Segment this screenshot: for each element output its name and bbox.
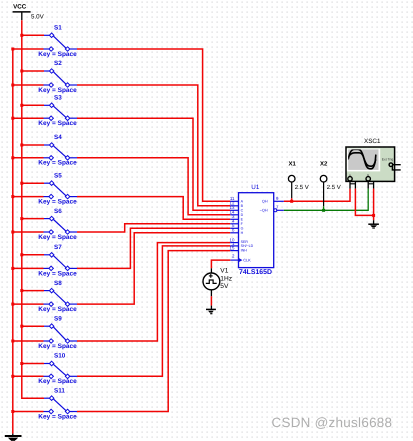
svg-text:5.0V: 5.0V [31, 13, 45, 20]
junction ground bus / S1 [11, 48, 14, 51]
pin 4 (F) stub [230, 223, 238, 225]
switch S6 (Key = Space) [38, 208, 77, 241]
svg-text:VCC: VCC [13, 3, 27, 10]
svg-text:QH: QH [262, 200, 268, 204]
wire ground bus to S11 bottom throw [13, 411, 44, 413]
U1 inner pin names [241, 200, 268, 263]
pin 5 (G) stub [230, 227, 238, 229]
wire scope A- to ground [355, 189, 373, 216]
wire S3 pole to U1 pin C [77, 118, 230, 210]
junction VCC bus / S9 [20, 325, 23, 328]
wire VCC bus to S2 top throw [22, 70, 44, 72]
wire ground bus to S10 bottom throw [13, 375, 44, 377]
pin 14 (D) stub [230, 214, 238, 216]
pin 11 (A) stub [230, 200, 238, 202]
probe X2 2.5 V [320, 160, 341, 206]
pin 3 (E) stub [230, 218, 238, 220]
pin 6 (H) stub [230, 232, 238, 234]
probe X1 2.5 V [288, 160, 308, 198]
wire U1 ~QH to scope channel B [284, 189, 368, 211]
junction VCC bus / S5 [20, 182, 23, 185]
svg-text:XSC1: XSC1 [364, 138, 381, 145]
junction X1 / QH wire [290, 200, 293, 203]
svg-text:D: D [241, 213, 244, 217]
svg-text:INH: INH [241, 249, 248, 253]
svg-text:S5: S5 [54, 172, 62, 179]
junction VCC bus / S8 [20, 289, 23, 292]
junction ground bus / S3 [11, 117, 14, 120]
CLK edge triangle [239, 258, 243, 262]
junction ground bus / S7 [11, 267, 14, 270]
wire VCC bus to S3 top throw [22, 104, 44, 106]
pin 12 (B) stub [230, 205, 238, 207]
junction VCC bus / S2 [20, 70, 23, 73]
switch S10 (Key = Space) [38, 353, 77, 386]
svg-text:Ext Trig: Ext Trig [382, 158, 394, 162]
svg-text:S4: S4 [54, 134, 62, 141]
junction VCC bus / S10 [20, 362, 23, 365]
wire S2 pole to U1 pin B [77, 85, 230, 206]
wire X1 stem to QH net [291, 198, 293, 201]
svg-text:S6: S6 [54, 208, 62, 215]
svg-text:S8: S8 [54, 280, 62, 287]
svg-text:S9: S9 [54, 315, 62, 322]
wire ground bus to S9 bottom throw [13, 340, 44, 342]
svg-text:CSDN @zhusl6688: CSDN @zhusl6688 [272, 415, 393, 430]
wire ground bus vertical [13, 49, 44, 434]
wire ground bus to S3 bottom throw [13, 117, 44, 119]
junction ground bus / S4 [11, 156, 14, 159]
svg-text:Key = Space: Key = Space [38, 234, 77, 241]
switch S2 (Key = Space) [38, 60, 77, 94]
wire S11 pole to U1 pin INH [77, 251, 230, 412]
junction VCC bus / S7 [20, 253, 23, 256]
switch S5 (Key = Space) [38, 172, 77, 205]
junction ground bus / S8 [11, 303, 14, 306]
svg-text:Key = Space: Key = Space [38, 120, 77, 127]
svg-text:S3: S3 [54, 95, 62, 102]
junction ground bus / S11 [11, 410, 14, 413]
junction ground bus / S6 [11, 231, 14, 234]
pin 2 (CLK) stub [230, 259, 238, 261]
junction VCC bus / S3 [20, 104, 23, 107]
svg-text:Key = Space: Key = Space [38, 51, 77, 58]
svg-text:Key = Space: Key = Space [38, 160, 77, 167]
svg-text:S2: S2 [54, 60, 62, 67]
switch S7 (Key = Space) [38, 244, 77, 277]
svg-text:SH/~LD: SH/~LD [241, 244, 254, 248]
svg-text:V1: V1 [220, 267, 228, 274]
voltage source V1 1Hz 5V [203, 267, 232, 296]
svg-text:S1: S1 [54, 25, 62, 32]
wire S9 pole to U1 pin SER [77, 243, 230, 341]
pin 7 (~QH) stub with inversion bubble [274, 209, 277, 212]
junction ground bus / S5 [11, 195, 14, 198]
wire S6 pole to U1 pin F [77, 224, 230, 232]
IC U1 74LS165D [230, 184, 284, 276]
wire V1 to ground [210, 296, 212, 305]
svg-text:S7: S7 [54, 244, 62, 251]
junction ground bus / S9 [11, 340, 14, 343]
svg-text:S10: S10 [54, 353, 66, 360]
wire ground bus to S2 bottom throw [13, 84, 44, 86]
wire VCC bus to S7 top throw [22, 254, 44, 256]
wire VCC bus to S8 top throw [22, 290, 44, 292]
wire VCC bus vertical [22, 20, 44, 398]
wire VCC bus to S6 top throw [22, 218, 44, 220]
wire VCC bus to S11 top throw [22, 397, 44, 399]
svg-text:X1: X1 [289, 160, 297, 167]
wire ground bus to S6 bottom throw [13, 231, 44, 233]
svg-text:Key = Space: Key = Space [38, 413, 77, 420]
pin 9 (QH) stub [274, 200, 284, 202]
junction VCC bus / S1 [20, 34, 23, 37]
svg-text:Key = Space: Key = Space [38, 199, 77, 206]
junction ground bus / S10 [11, 375, 14, 378]
pin 15 (INH) stub [230, 250, 238, 252]
wire S8 pole to U1 pin H [77, 233, 230, 304]
wire S10 pole to U1 pin SH/~LD [77, 246, 230, 376]
svg-text:~QH: ~QH [260, 209, 268, 213]
svg-text:2.5 V: 2.5 V [295, 184, 309, 191]
pin 10 (SER) stub [230, 242, 238, 244]
wire ground bus to S5 bottom throw [13, 196, 44, 198]
switch S3 (Key = Space) [38, 95, 77, 128]
wire S4 pole to U1 pin D [77, 158, 230, 215]
svg-text:Key = Space: Key = Space [38, 87, 77, 94]
power VCC 5.0V [13, 3, 45, 20]
svg-text:Key = Space: Key = Space [38, 306, 77, 313]
svg-text:S11: S11 [54, 387, 65, 394]
svg-text:X2: X2 [320, 160, 328, 167]
wire S5 pole to U1 pin E [77, 197, 230, 220]
ground (V1) [206, 306, 216, 314]
wire VCC bus to S4 top throw [22, 144, 44, 146]
wire VCC bus to S1 top throw [22, 34, 44, 36]
pin 13 (C) stub [230, 209, 238, 211]
svg-text:G: G [241, 227, 244, 231]
svg-text:Key = Space: Key = Space [38, 343, 77, 350]
svg-text:U1: U1 [251, 184, 260, 191]
svg-text:74LS165D: 74LS165D [239, 269, 272, 276]
switch S11 (Key = Space) [38, 387, 77, 420]
switch S1 (Key = Space) [38, 25, 77, 58]
junction VCC bus / S6 [20, 217, 23, 220]
svg-text:CLK: CLK [243, 258, 251, 263]
ground (scope) [368, 220, 379, 228]
switch S8 (Key = Space) [38, 280, 77, 313]
svg-text:H: H [241, 231, 244, 235]
svg-text:1Hz: 1Hz [220, 276, 232, 283]
wire V1 to U1 CLK pin 2 [211, 260, 230, 268]
svg-text:Key = Space: Key = Space [38, 378, 77, 385]
svg-text:2.5 V: 2.5 V [327, 184, 341, 191]
ground (switch common) [5, 434, 22, 441]
junction X2 / ~QH wire [322, 209, 325, 212]
junction VCC bus / S4 [20, 144, 23, 147]
wire S7 pole to U1 pin G [77, 228, 230, 268]
wire X2 stem to ~QH net [323, 206, 325, 210]
wire VCC bus to S5 top throw [22, 182, 44, 184]
svg-text:C: C [241, 209, 244, 213]
wire VCC bus to S10 top throw [22, 363, 44, 365]
junction A- / B- wires [372, 214, 375, 217]
svg-text:5V: 5V [220, 283, 229, 290]
junction ground bus / S2 [11, 84, 14, 87]
svg-text:15: 15 [230, 246, 235, 251]
oscilloscope XSC1 [346, 138, 401, 189]
wire U1 QH to scope channel A [284, 189, 350, 202]
pin 1 (SH/~LD) stub [230, 245, 238, 247]
switch S9 (Key = Space) [38, 315, 77, 350]
wire S1 pole to U1 pin A [77, 49, 230, 201]
switch S4 (Key = Space) [38, 134, 77, 167]
wire ground bus to S4 bottom throw [13, 157, 44, 159]
wire ground bus to S7 bottom throw [13, 267, 44, 269]
wire scope B- to ground [373, 189, 375, 221]
svg-text:Key = Space: Key = Space [38, 270, 77, 277]
wire VCC bus to S9 top throw [22, 325, 44, 327]
wire ground bus to S8 bottom throw [13, 303, 44, 305]
